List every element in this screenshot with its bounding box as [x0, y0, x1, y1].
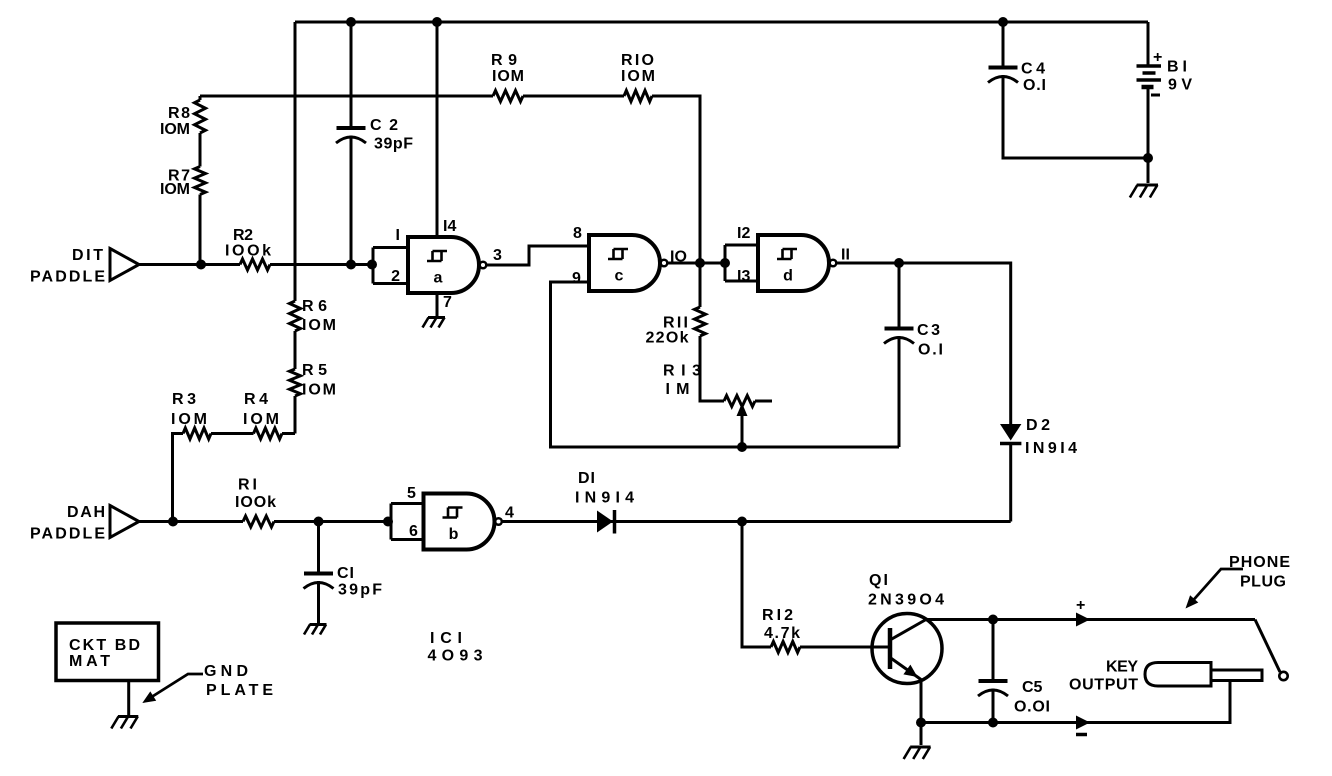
- svg-text:RIO: RIO: [621, 52, 654, 69]
- svg-text:C3: C3: [917, 322, 940, 339]
- svg-text:7: 7: [443, 294, 452, 311]
- svg-text:39pF: 39pF: [338, 582, 382, 599]
- svg-text:IN9I4: IN9I4: [575, 490, 634, 507]
- svg-text:IM: IM: [666, 381, 690, 398]
- svg-text:+: +: [1076, 597, 1085, 614]
- svg-text:IOOk: IOOk: [235, 494, 276, 511]
- svg-text:CI: CI: [337, 565, 354, 582]
- svg-text:C5: C5: [1022, 679, 1043, 696]
- svg-text:BI: BI: [1167, 59, 1187, 76]
- svg-text:I: I: [396, 227, 400, 244]
- svg-text:OUTPUT: OUTPUT: [1069, 677, 1138, 694]
- svg-text:CKT BD: CKT BD: [69, 637, 140, 654]
- svg-text:QI: QI: [869, 572, 888, 589]
- svg-text:PLATE: PLATE: [206, 682, 273, 699]
- svg-text:RI3: RI3: [663, 363, 701, 380]
- svg-text:4.7k: 4.7k: [764, 625, 800, 642]
- svg-text:I3: I3: [737, 268, 750, 285]
- svg-text:IOM: IOM: [160, 121, 190, 138]
- svg-text:DAH: DAH: [67, 504, 105, 521]
- svg-text:c: c: [615, 268, 624, 285]
- svg-text:I4: I4: [443, 218, 456, 235]
- svg-text:4: 4: [505, 505, 514, 522]
- svg-text:IN9I4: IN9I4: [1025, 440, 1077, 457]
- svg-text:IOM: IOM: [492, 68, 524, 85]
- svg-text:R8: R8: [168, 105, 190, 122]
- svg-text:39pF: 39pF: [374, 136, 413, 153]
- svg-text:5: 5: [407, 485, 416, 502]
- svg-text:DIT: DIT: [72, 247, 103, 264]
- svg-text:d: d: [783, 268, 793, 285]
- svg-text:O.I: O.I: [1023, 77, 1046, 94]
- svg-text:IOOk: IOOk: [225, 243, 271, 260]
- svg-text:2: 2: [391, 268, 400, 285]
- svg-text:MAT: MAT: [69, 653, 110, 670]
- svg-text:22Ok: 22Ok: [646, 330, 689, 347]
- svg-text:PHONE: PHONE: [1229, 554, 1290, 571]
- svg-text:KEY: KEY: [1106, 659, 1138, 676]
- svg-text:8: 8: [573, 225, 582, 242]
- svg-text:IO: IO: [670, 249, 687, 266]
- svg-text:II: II: [841, 247, 850, 264]
- svg-text:GND: GND: [204, 663, 248, 680]
- svg-text:RI2: RI2: [762, 607, 793, 624]
- svg-text:3: 3: [493, 247, 502, 264]
- svg-text:O.OI: O.OI: [1014, 699, 1050, 716]
- svg-text:DI: DI: [578, 470, 595, 487]
- svg-text:6: 6: [409, 523, 418, 540]
- svg-text:PLUG: PLUG: [1240, 574, 1286, 591]
- svg-text:+: +: [1153, 49, 1162, 66]
- svg-text:b: b: [449, 526, 459, 543]
- svg-text:R2: R2: [233, 227, 253, 244]
- svg-text:I2: I2: [737, 225, 750, 242]
- svg-text:RI: RI: [238, 477, 257, 494]
- svg-text:9: 9: [572, 270, 581, 287]
- svg-text:a: a: [434, 270, 443, 287]
- svg-text:IOM: IOM: [160, 181, 190, 198]
